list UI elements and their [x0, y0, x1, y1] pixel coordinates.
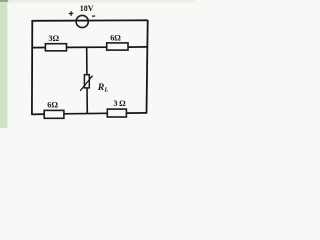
plus sign — [69, 11, 73, 16]
wire middle row center segment — [66, 46, 107, 48]
variable resistor RL arrow slash — [80, 75, 93, 91]
wire center vertical lower (RL down to bottom node) — [86, 88, 88, 114]
wire right vertical — [147, 20, 148, 113]
minus sign — [92, 15, 95, 17]
resistor 3Ω top-left box — [45, 44, 66, 51]
wire center vertical upper (node between 3Ω and 6Ω down to RL) — [86, 47, 88, 75]
svg-text:6Ω: 6Ω — [110, 34, 121, 43]
wire left vertical — [31, 20, 33, 115]
svg-text:18V: 18V — [80, 4, 94, 13]
page background — [0, 0, 195, 128]
resistor 6Ω top-right box — [107, 43, 128, 50]
svg-text:3 Ω: 3 Ω — [113, 99, 126, 108]
svg-text:3Ω: 3Ω — [48, 34, 59, 43]
wire top (left corner to right corner, passes through source) — [32, 19, 147, 22]
wire bottom middle segment — [64, 112, 108, 115]
svg-text:6Ω: 6Ω — [47, 101, 58, 110]
wire bottom right segment — [126, 112, 147, 114]
resistor 6Ω bottom-left box — [44, 110, 64, 118]
source V1 18V — [76, 15, 88, 27]
wire middle row left segment — [32, 47, 46, 49]
resistor 3Ω bottom-right box — [107, 109, 126, 117]
wire bottom left segment — [32, 113, 45, 115]
wire middle row right segment — [128, 46, 148, 48]
variable resistor RL box — [84, 75, 89, 88]
